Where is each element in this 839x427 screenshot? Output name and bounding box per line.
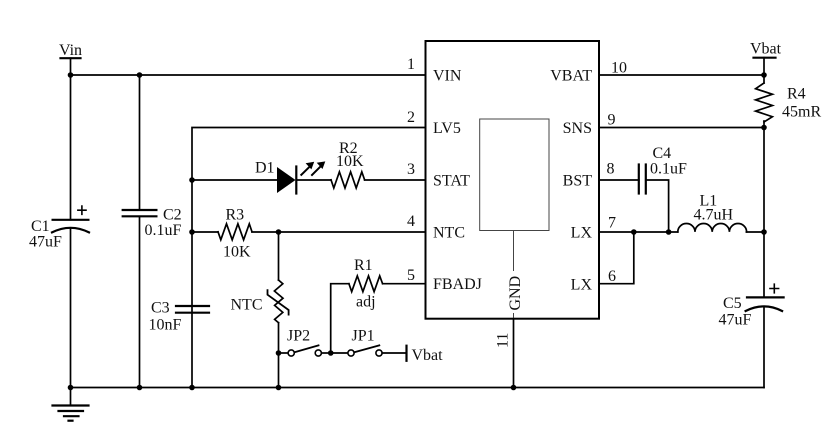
IC U1 body [426,41,600,319]
IC inner box [480,119,549,231]
wire C1 branch lower [70,228,72,388]
capacitor C3 [149,300,210,334]
svg-text:NTC: NTC [231,296,263,313]
wire C1 branch upper [70,75,72,220]
junction L1/rail [761,229,767,235]
svg-text:D1: D1 [255,160,275,177]
wire C2 branch lower [139,216,141,387]
junction pin11 [511,385,517,391]
svg-text:JP2: JP2 [287,328,310,345]
svg-text:5: 5 [407,267,415,284]
wire right rail upper [763,128,765,298]
wire R1 riser [331,284,349,353]
svg-text:C2: C2 [163,206,182,223]
svg-text:LX: LX [571,276,593,293]
svg-text:47uF: 47uF [29,234,62,251]
junction D1 anode line [189,177,195,183]
thermistor NTC [231,280,289,323]
svg-text:10nF: 10nF [149,317,182,334]
svg-text:GND: GND [507,276,524,311]
svg-text:9: 9 [608,112,616,129]
node Vin [59,42,82,75]
junction SNS/R4 [761,125,767,131]
resistor R1 [349,257,383,311]
svg-text:Vbat: Vbat [412,347,444,364]
svg-text:11: 11 [495,333,512,348]
capacitor C5 [719,284,784,328]
junction C3 bottom [189,385,195,391]
svg-text:6: 6 [608,268,616,285]
svg-text:8: 8 [607,161,615,178]
svg-text:SNS: SNS [563,120,592,137]
svg-text:4.7uH: 4.7uH [694,207,734,224]
svg-text:adj: adj [356,294,376,311]
svg-text:VBAT: VBAT [550,67,592,84]
junction C4/LX [666,229,672,235]
svg-text:2: 2 [407,109,415,126]
wire R4 top lead [763,75,765,83]
wire C2 branch upper [139,75,141,210]
resistor R2 [331,140,365,188]
wire top rail Vin to pin1 [71,74,426,76]
wire C4 to LX [646,180,669,232]
junction JP2/JP1/R1 [328,350,334,356]
wire R1 to pin5 [383,283,426,285]
LED D1 [255,160,325,194]
svg-text:LV5: LV5 [433,120,461,137]
wire R2 to pin3 [365,179,426,181]
svg-text:R4: R4 [787,86,806,103]
svg-text:C5: C5 [723,295,742,312]
wire R4 bottom lead [763,121,765,128]
svg-text:JP1: JP1 [352,328,375,345]
wire D1 cathode to R2 [296,179,331,181]
junction NTC bottom [276,385,282,391]
junction Vin/C1 [68,72,74,78]
pin numbers left [407,56,415,284]
wire NTC branch lower [278,323,280,388]
capacitor C2 [123,206,182,239]
svg-text:C1: C1 [31,218,50,235]
svg-text:0.1uF: 0.1uF [145,222,182,239]
wire GND internal [513,231,515,319]
capacitor C1 [29,206,89,250]
resistor R3 [218,207,252,261]
wire BST pin8 [599,179,639,181]
svg-text:1: 1 [407,56,415,73]
resistor R4 [756,83,822,122]
junction ground [68,385,74,391]
junction NTC top [276,229,282,235]
pin numbers right [607,60,628,286]
svg-text:10: 10 [611,60,627,77]
svg-text:Vin: Vin [59,42,82,59]
wire LV5 pin2 [192,128,426,388]
wire L1 right to rail [746,231,764,233]
wire NTC branch upper [278,232,280,280]
svg-text:C4: C4 [653,145,672,162]
wire SNS pin9 [599,127,764,129]
junction C2 bottom [137,385,143,391]
svg-text:R3: R3 [226,207,245,224]
svg-text:10K: 10K [223,244,251,261]
svg-text:45mR: 45mR [782,104,821,121]
jumper JP1 [331,328,407,357]
svg-text:NTC: NTC [433,224,465,241]
wire D1 anode [192,179,277,181]
pin labels right [550,67,592,293]
node Vbat top right [750,41,782,76]
svg-text:10K: 10K [336,153,364,170]
svg-text:FBADJ: FBADJ [433,276,482,293]
svg-text:VIN: VIN [433,67,462,84]
svg-text:R1: R1 [354,257,373,274]
svg-text:BST: BST [563,172,593,189]
junction R3 left [189,229,195,235]
svg-text:LX: LX [571,224,593,241]
junction Vbat/R4 [761,72,767,78]
wire LX pin6 riser [599,232,634,284]
inductor L1 [678,193,747,232]
svg-text:Vbat: Vbat [750,41,782,58]
wire GND pin11 [513,319,515,388]
wire LX pin7 [599,231,678,233]
wire VBAT pin10 [599,74,764,76]
svg-text:47uF: 47uF [719,312,752,329]
wire pin4 NTC row [192,231,218,233]
wire bottom rail [71,387,765,389]
node Vbat (jumper side) [407,346,444,364]
svg-text:7: 7 [608,215,616,232]
junction C2 top [137,72,143,78]
jumper JP2 [281,328,331,357]
ground [53,388,89,421]
wire R3 right to pin4 [252,231,426,233]
pin labels left [433,67,482,293]
svg-text:3: 3 [407,161,415,178]
svg-text:0.1uF: 0.1uF [650,161,687,178]
capacitor C4 [639,145,687,194]
junction JP2 left [276,350,282,356]
wire right rail lower [763,307,765,388]
junction LX pins 6-7 [631,229,637,235]
svg-text:C3: C3 [151,300,170,317]
svg-text:STAT: STAT [433,172,470,189]
svg-text:4: 4 [407,213,415,230]
